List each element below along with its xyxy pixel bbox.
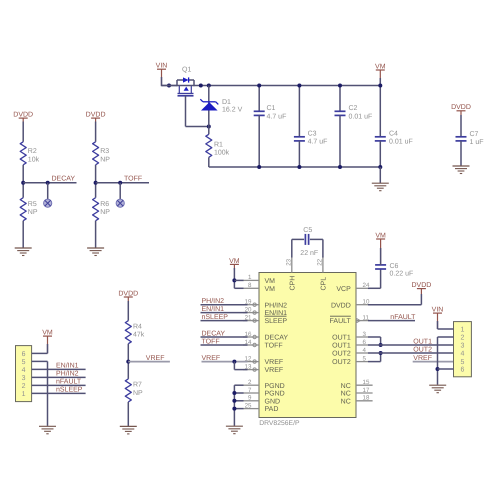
svg-text:VREF: VREF xyxy=(202,355,221,362)
svg-text:C6: C6 xyxy=(390,263,399,270)
svg-text:nSLEEP: nSLEEP xyxy=(56,387,83,394)
connector J1 body xyxy=(16,346,32,402)
svg-text:NP: NP xyxy=(28,209,38,216)
svg-text:15: 15 xyxy=(363,379,370,386)
svg-text:VIN: VIN xyxy=(432,307,444,314)
wire VM to C6 xyxy=(380,239,382,265)
IC top pin stubs xyxy=(291,257,293,273)
svg-text:EN/IN1: EN/IN1 xyxy=(202,305,225,313)
svg-text:PH/IN2: PH/IN2 xyxy=(265,301,288,309)
svg-text:6: 6 xyxy=(460,367,464,374)
svg-text:4.7 uF: 4.7 uF xyxy=(267,114,287,121)
svg-text:2: 2 xyxy=(248,379,252,386)
wire DVDD (pin10) xyxy=(368,304,421,306)
node VREF xyxy=(126,360,130,364)
svg-text:NC: NC xyxy=(341,391,351,398)
resistor R2 xyxy=(20,142,26,165)
wire R6 to ground xyxy=(95,221,97,248)
svg-text:VREF: VREF xyxy=(265,367,284,374)
svg-text:DECAY: DECAY xyxy=(52,176,76,183)
wire TOFF xyxy=(96,182,149,184)
svg-text:R1: R1 xyxy=(214,141,223,148)
svg-text:4: 4 xyxy=(22,367,26,374)
svg-text:23: 23 xyxy=(286,258,293,265)
wire C7 to ground xyxy=(460,141,462,166)
svg-text:DVDD: DVDD xyxy=(118,290,138,297)
wire zener branch xyxy=(208,86,210,135)
svg-text:PH/IN2: PH/IN2 xyxy=(56,370,79,378)
IC left pin stubs xyxy=(243,279,259,281)
svg-text:VM: VM xyxy=(375,232,386,239)
svg-text:1 uF: 1 uF xyxy=(470,139,484,146)
svg-text:DVDD: DVDD xyxy=(86,112,106,119)
svg-text:SLEEP: SLEEP xyxy=(265,318,288,325)
wire nFAULT (J1 pin2) xyxy=(32,384,86,386)
svg-text:16.2 V: 16.2 V xyxy=(222,107,243,114)
svg-text:4: 4 xyxy=(363,347,367,354)
svg-text:DVDD: DVDD xyxy=(13,112,33,119)
wire TOFF (pin14) xyxy=(201,344,248,346)
wire PGND bus xyxy=(234,384,243,386)
svg-text:6: 6 xyxy=(22,351,26,358)
svg-text:nFAULT: nFAULT xyxy=(390,314,416,321)
svg-text:VREF: VREF xyxy=(265,359,284,366)
svg-text:R2: R2 xyxy=(28,148,37,155)
svg-text:C5: C5 xyxy=(303,227,312,234)
svg-text:5: 5 xyxy=(460,359,464,366)
pin 11 arrow xyxy=(356,318,360,322)
capacitor C7 xyxy=(456,136,467,138)
wire R2 to DECAY node xyxy=(22,165,24,198)
svg-text:3: 3 xyxy=(22,375,26,382)
svg-text:DECAY: DECAY xyxy=(202,330,226,337)
svg-text:nFAULT: nFAULT xyxy=(56,379,82,386)
junction jumper drop xyxy=(46,181,50,185)
svg-text:DVDD: DVDD xyxy=(331,302,351,309)
svg-text:9: 9 xyxy=(248,395,252,402)
wire VIN to Q1 source xyxy=(162,85,178,87)
op-amp U1 DRV8256E/P body xyxy=(259,273,356,418)
svg-text:25: 25 xyxy=(245,402,252,409)
svg-text:CPL: CPL xyxy=(320,277,327,291)
svg-text:100k: 100k xyxy=(214,148,230,156)
svg-text:NP: NP xyxy=(133,390,143,397)
node rail junctions xyxy=(199,84,203,88)
svg-text:DECAY: DECAY xyxy=(265,335,289,342)
svg-text:2: 2 xyxy=(460,335,464,342)
svg-text:nSLEEP: nSLEEP xyxy=(202,314,229,321)
wire CPH vertical xyxy=(291,239,293,257)
wire VREF to pin13 xyxy=(233,362,235,370)
svg-text:5: 5 xyxy=(363,355,367,362)
wire VIN down xyxy=(161,69,163,85)
svg-text:C4: C4 xyxy=(389,131,398,138)
solder jumper JP2 xyxy=(116,199,124,207)
svg-text:VM: VM xyxy=(375,63,386,70)
svg-text:OUT1: OUT1 xyxy=(413,339,432,346)
svg-text:DVDD: DVDD xyxy=(451,104,471,111)
overline SLEEP xyxy=(265,315,287,317)
svg-text:NC: NC xyxy=(341,398,351,405)
svg-text:18: 18 xyxy=(363,395,370,402)
svg-text:OUT2: OUT2 xyxy=(332,359,351,366)
junction jumper drop 2 xyxy=(118,181,122,185)
resistor R3 xyxy=(93,142,99,165)
wire DVDD to C7 xyxy=(460,115,462,137)
ground J1 xyxy=(39,425,56,427)
svg-text:4.7 uF: 4.7 uF xyxy=(308,139,328,146)
svg-text:10k: 10k xyxy=(28,156,40,164)
svg-text:1: 1 xyxy=(22,391,26,398)
wire J1 pin5 to ground xyxy=(32,360,48,362)
svg-text:D1: D1 xyxy=(222,99,231,106)
svg-text:PH/IN2: PH/IN2 xyxy=(202,297,225,305)
solder jumper JP1 xyxy=(44,199,52,207)
ground under C7 xyxy=(453,165,470,167)
svg-text:3: 3 xyxy=(363,331,367,338)
capacitor C2 xyxy=(339,86,341,112)
ground under R7 xyxy=(120,425,137,427)
svg-text:PGND: PGND xyxy=(265,383,285,390)
wire nFAULT (pin11) xyxy=(368,320,415,322)
wire nSLEEP (J1 pin1) xyxy=(32,392,86,394)
svg-text:NP: NP xyxy=(100,157,110,164)
wire DVDD to R2 xyxy=(22,122,24,142)
wire DECAY (pin16) xyxy=(201,336,248,338)
IC right pin stubs xyxy=(356,287,368,289)
wire bottom rail xyxy=(209,166,380,168)
connector J2 body xyxy=(454,322,472,377)
svg-text:GND: GND xyxy=(265,398,281,405)
wire OUT1 pin3 join xyxy=(368,336,381,338)
svg-text:VM: VM xyxy=(229,258,240,265)
pin decorations (input circles) xyxy=(253,303,256,306)
wire OUT2 pin5 join xyxy=(368,361,381,363)
ground under R6 xyxy=(87,247,104,249)
wire J2 pin2 to ground bus xyxy=(438,336,454,338)
svg-text:R5: R5 xyxy=(28,201,37,208)
wire VM rail top xyxy=(162,85,381,87)
svg-text:17: 17 xyxy=(363,387,370,394)
svg-text:7: 7 xyxy=(248,387,252,394)
wire VREF gray (pin12) xyxy=(202,361,248,363)
resistor R4 xyxy=(125,321,131,344)
svg-text:TOFF: TOFF xyxy=(202,338,220,345)
svg-text:PGND: PGND xyxy=(265,391,285,398)
svg-text:R3: R3 xyxy=(100,148,109,155)
svg-text:VCP: VCP xyxy=(336,286,351,293)
svg-text:TOFF: TOFF xyxy=(265,343,283,350)
wire R4 to VREF node xyxy=(127,344,129,379)
wire VREF stub gray xyxy=(128,361,170,363)
svg-text:VM: VM xyxy=(42,330,53,337)
wire VCP to C6 (pin24) xyxy=(368,287,381,289)
svg-text:R4: R4 xyxy=(133,324,142,331)
svg-text:DRV8256E/P: DRV8256E/P xyxy=(259,420,300,427)
svg-text:2: 2 xyxy=(22,383,26,390)
wire OUT1 (pin6) xyxy=(368,344,454,346)
wire OUT2 (pin4) xyxy=(368,352,454,354)
wire VM to J1 pin6 xyxy=(47,336,49,353)
svg-text:C3: C3 xyxy=(308,131,317,138)
wire DECAY xyxy=(23,182,76,184)
svg-text:22: 22 xyxy=(317,258,324,265)
wire VM to pin1/8 xyxy=(233,268,235,288)
wire R5 to ground xyxy=(22,221,24,248)
wire R1 to bottom rail xyxy=(208,157,210,167)
svg-text:C7: C7 xyxy=(470,131,479,138)
svg-text:VIN: VIN xyxy=(156,63,168,70)
svg-text:1: 1 xyxy=(248,274,252,281)
svg-text:DVDD: DVDD xyxy=(411,282,431,289)
svg-text:C2: C2 xyxy=(349,105,358,112)
node DECAY junction xyxy=(21,181,25,185)
wire PH/IN2 (J1 pin3) xyxy=(32,376,86,378)
node VIN-Q1 junction xyxy=(167,84,171,88)
svg-text:CPH: CPH xyxy=(289,276,296,291)
wire R7 to ground xyxy=(127,402,129,426)
svg-text:OUT1: OUT1 xyxy=(332,343,351,350)
svg-text:4: 4 xyxy=(460,351,464,358)
wire to jumper JP2 xyxy=(119,183,121,200)
wire EN/IN1 (J1 pin4) xyxy=(32,368,86,370)
svg-text:OUT2: OUT2 xyxy=(413,347,432,354)
wire DVDD to R3 xyxy=(95,122,97,142)
node J2 pin6 junction xyxy=(436,367,440,371)
wire to jumper JP1 xyxy=(47,183,49,200)
svg-text:1: 1 xyxy=(460,327,464,334)
ground J2 xyxy=(429,384,446,386)
wire PH/IN2 (pin19) xyxy=(201,304,248,306)
svg-text:C1: C1 xyxy=(267,105,276,112)
svg-text:0.01 uF: 0.01 uF xyxy=(389,139,413,146)
wire CPL vertical xyxy=(322,239,324,257)
svg-text:PAD: PAD xyxy=(265,406,279,413)
svg-text:0.22 uF: 0.22 uF xyxy=(390,271,414,278)
capacitor C1 xyxy=(258,86,260,112)
ground under R5 xyxy=(15,247,32,249)
capacitor C6 xyxy=(375,264,386,266)
wire nSLEEP (pin21) xyxy=(201,320,248,322)
wire VIN to J2 pin1 xyxy=(437,313,439,329)
svg-text:TOFF: TOFF xyxy=(124,176,142,183)
capacitor C4 xyxy=(379,86,381,137)
node TOFF junction xyxy=(94,181,98,185)
svg-text:VREF: VREF xyxy=(146,355,165,362)
svg-text:OUT1: OUT1 xyxy=(332,335,351,342)
svg-text:VM: VM xyxy=(265,278,276,285)
resistor R7 xyxy=(125,379,131,402)
svg-text:22 nF: 22 nF xyxy=(300,250,318,257)
wire EN/IN1 (pin20) xyxy=(201,312,248,314)
svg-text:47k: 47k xyxy=(133,331,145,339)
capacitor C3 xyxy=(298,86,300,137)
svg-text:3: 3 xyxy=(460,343,464,350)
wire J2 pin6 xyxy=(438,368,454,370)
svg-text:OUT2: OUT2 xyxy=(332,351,351,358)
node gate-zener junction xyxy=(207,125,211,129)
svg-text:Q1: Q1 xyxy=(182,67,191,74)
wire VREF gray (J2 pin5) xyxy=(413,361,454,363)
svg-text:8: 8 xyxy=(248,282,252,289)
svg-text:FAULT: FAULT xyxy=(330,318,352,325)
resistor R5 xyxy=(20,198,26,221)
resistor R6 xyxy=(93,198,99,221)
svg-text:VM: VM xyxy=(265,286,276,293)
svg-text:6: 6 xyxy=(363,339,367,346)
resistor R1 xyxy=(206,134,212,157)
svg-text:R6: R6 xyxy=(100,201,109,208)
overline FAULT xyxy=(330,315,351,317)
svg-text:VREF: VREF xyxy=(413,355,432,362)
svg-text:NP: NP xyxy=(100,209,110,216)
svg-text:R7: R7 xyxy=(133,382,142,389)
ground PGND xyxy=(226,425,243,427)
svg-text:0.01 uF: 0.01 uF xyxy=(349,114,373,121)
svg-text:EN/IN1: EN/IN1 xyxy=(56,362,79,370)
svg-text:5: 5 xyxy=(22,359,26,366)
wire DVDD to R4 xyxy=(127,301,129,321)
svg-text:NC: NC xyxy=(341,383,351,390)
ground cap bank xyxy=(379,167,381,183)
wire Q1 gate xyxy=(185,96,187,127)
wire R3 to TOFF node xyxy=(95,165,97,198)
